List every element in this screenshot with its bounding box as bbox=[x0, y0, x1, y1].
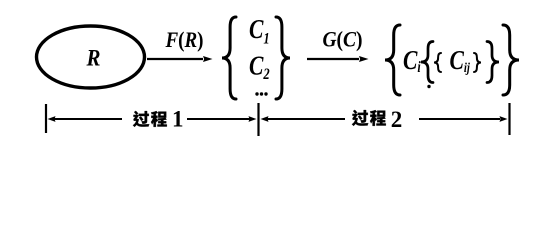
svg-text:R: R bbox=[86, 45, 101, 71]
svg-text:G(C): G(C) bbox=[322, 26, 362, 52]
svg-text:1: 1 bbox=[172, 106, 184, 131]
svg-text:F(R): F(R) bbox=[165, 29, 204, 52]
svg-text:2: 2 bbox=[391, 107, 403, 132]
